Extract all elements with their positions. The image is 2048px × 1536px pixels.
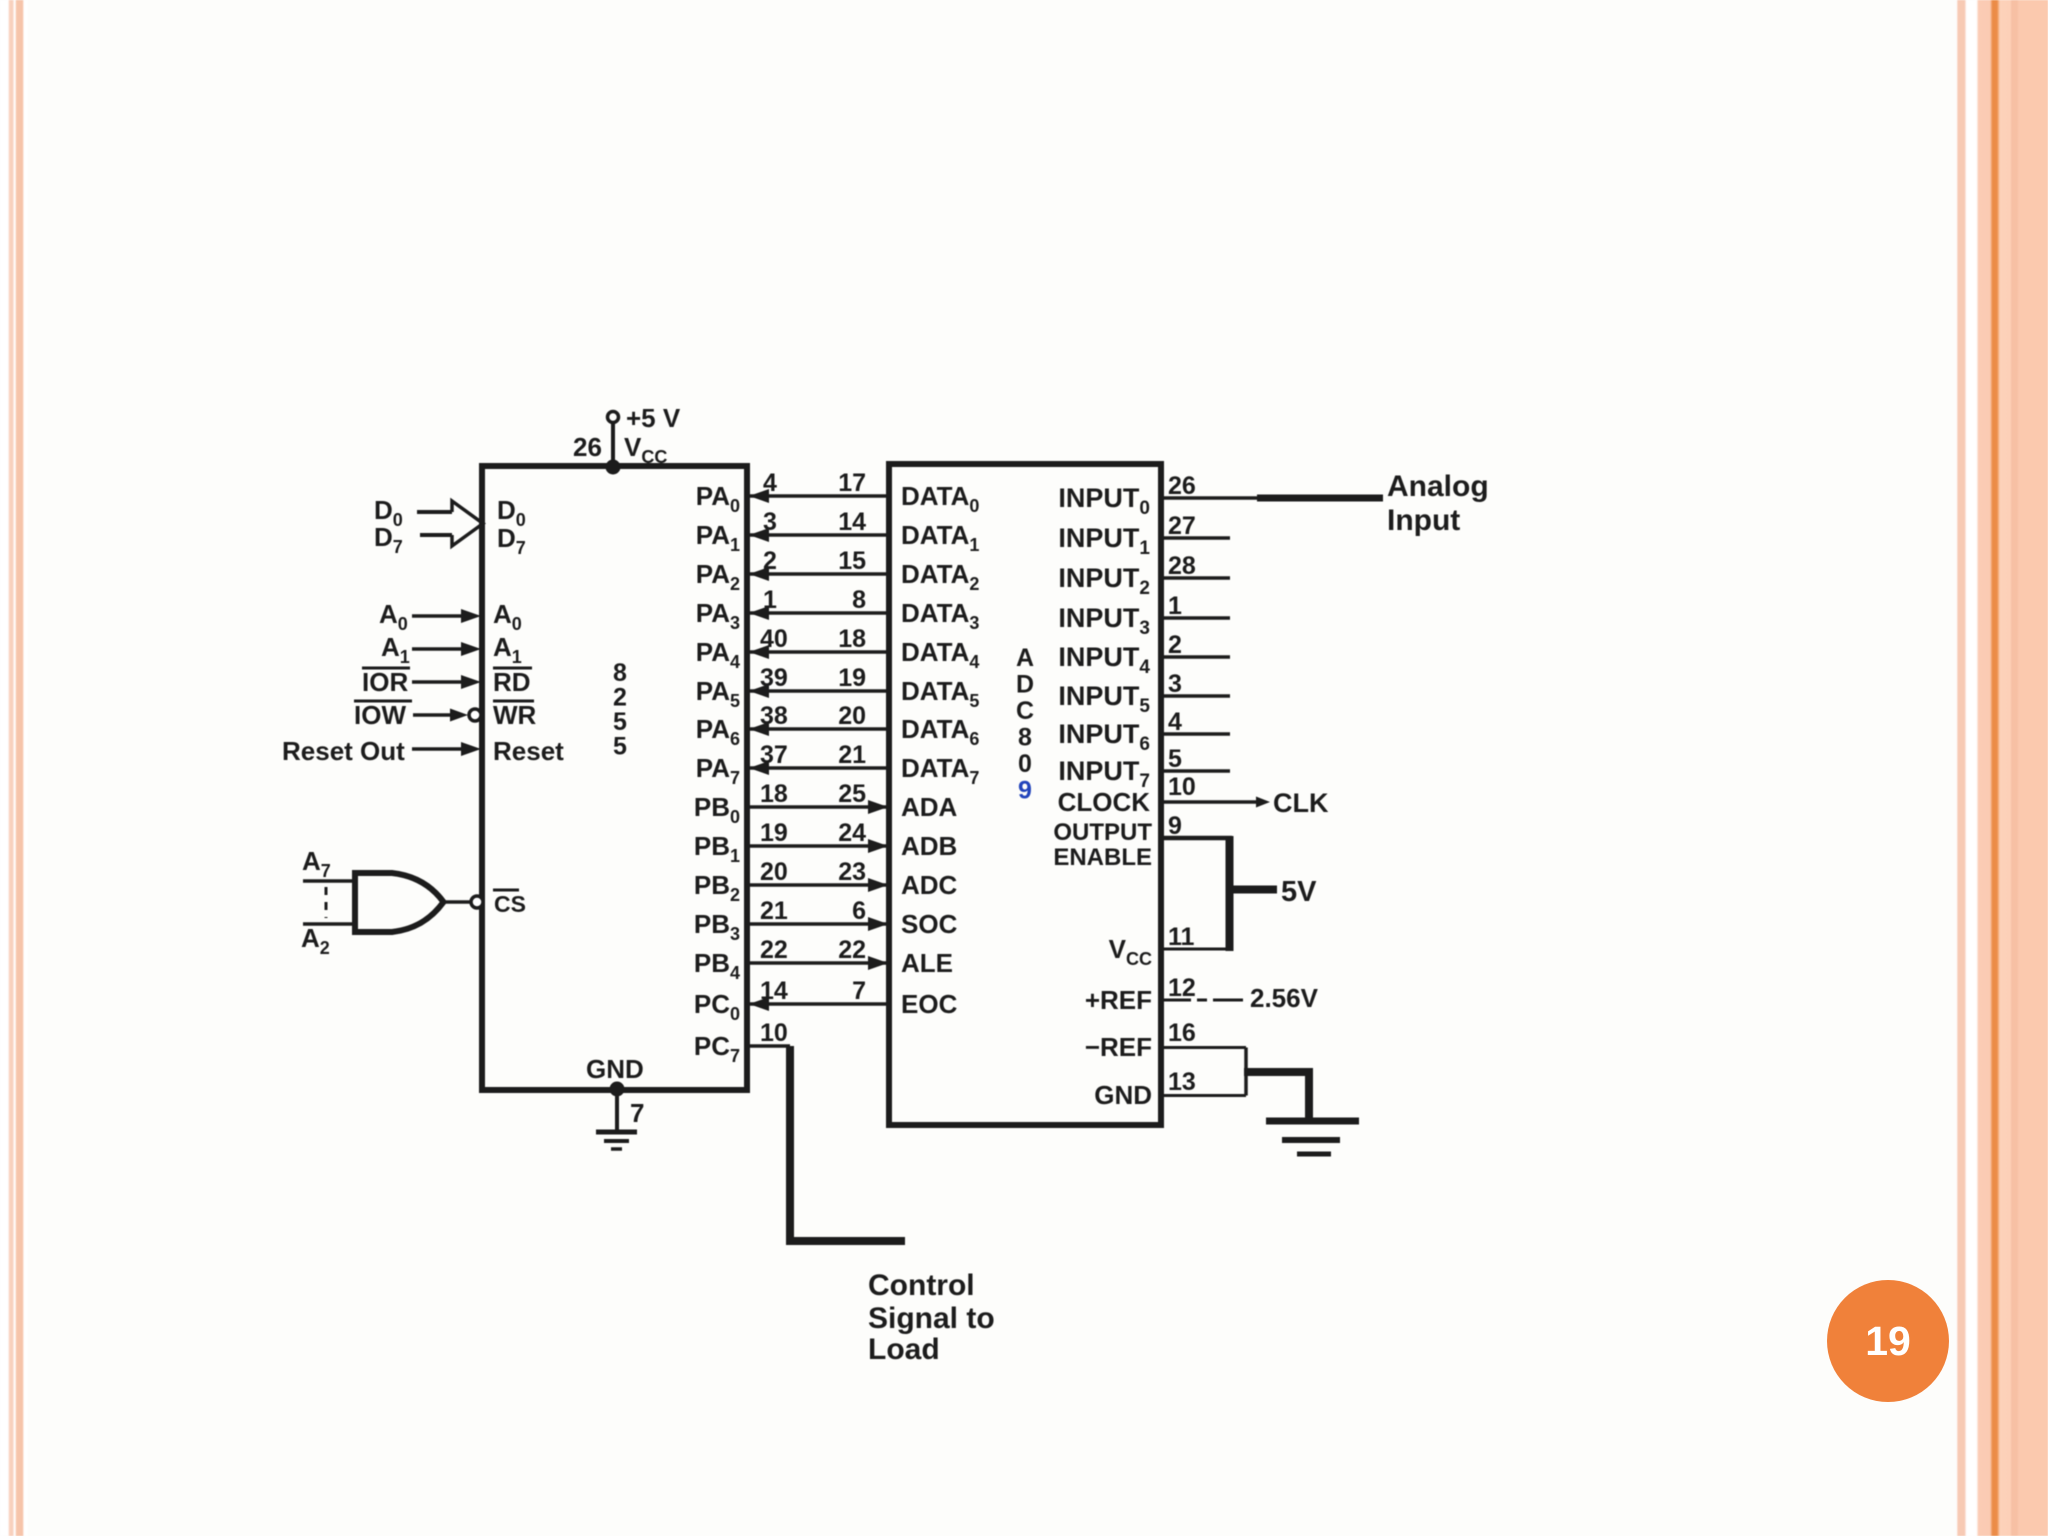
svg-text:Analog: Analog — [1387, 470, 1489, 503]
svg-text:5: 5 — [613, 733, 627, 761]
svg-text:1: 1 — [763, 586, 777, 614]
svg-text:PB2: PB2 — [694, 870, 740, 905]
svg-text:EOC: EOC — [901, 989, 958, 1019]
svg-text:Control: Control — [868, 1269, 975, 1302]
svg-text:DATA3: DATA3 — [901, 598, 979, 633]
svg-text:C: C — [1016, 697, 1034, 725]
svg-text:13: 13 — [1168, 1068, 1196, 1096]
svg-text:PB3: PB3 — [694, 909, 740, 944]
svg-text:D: D — [1016, 671, 1034, 699]
svg-text:18: 18 — [838, 625, 866, 653]
svg-text:+REF: +REF — [1085, 985, 1152, 1015]
svg-text:IOW: IOW — [354, 700, 406, 730]
svg-text:1: 1 — [1168, 592, 1182, 620]
svg-text:4: 4 — [1168, 708, 1182, 736]
svg-text:PA0: PA0 — [696, 481, 740, 516]
svg-text:19: 19 — [838, 664, 866, 692]
svg-text:RD: RD — [493, 667, 531, 697]
svg-text:3: 3 — [763, 508, 777, 536]
svg-text:10: 10 — [1168, 773, 1196, 801]
svg-text:21: 21 — [760, 897, 788, 925]
svg-text:25: 25 — [838, 780, 866, 808]
svg-text:A: A — [1016, 644, 1034, 672]
svg-text:A7: A7 — [302, 846, 331, 881]
svg-text:14: 14 — [838, 508, 866, 536]
svg-text:ENABLE: ENABLE — [1053, 844, 1152, 871]
svg-text:VCC: VCC — [624, 432, 667, 467]
svg-text:DATA0: DATA0 — [901, 481, 979, 516]
svg-text:10: 10 — [760, 1019, 788, 1047]
svg-text:A0: A0 — [493, 599, 522, 634]
svg-text:17: 17 — [838, 469, 866, 497]
svg-text:VCC: VCC — [1109, 934, 1152, 969]
svg-text:7: 7 — [630, 1098, 644, 1128]
svg-text:2: 2 — [1168, 631, 1182, 659]
svg-text:16: 16 — [1168, 1019, 1196, 1047]
svg-text:3: 3 — [1168, 670, 1182, 698]
svg-text:PA7: PA7 — [696, 753, 740, 788]
svg-text:0: 0 — [1018, 750, 1032, 778]
svg-text:12: 12 — [1168, 974, 1196, 1002]
svg-text:A1: A1 — [381, 632, 410, 667]
svg-text:INPUT2: INPUT2 — [1058, 563, 1150, 599]
svg-text:PB1: PB1 — [694, 831, 740, 866]
svg-text:Reset Out: Reset Out — [282, 736, 405, 766]
svg-text:20: 20 — [838, 702, 866, 730]
svg-text:INPUT5: INPUT5 — [1058, 681, 1150, 717]
svg-text:A0: A0 — [379, 599, 408, 634]
svg-text:19: 19 — [760, 819, 788, 847]
svg-text:DATA6: DATA6 — [901, 714, 979, 749]
svg-text:PA1: PA1 — [696, 520, 740, 555]
svg-text:CS: CS — [494, 891, 526, 917]
svg-text:DATA1: DATA1 — [901, 520, 979, 555]
svg-text:ADC: ADC — [901, 870, 958, 900]
svg-text:A2: A2 — [301, 923, 330, 958]
svg-text:40: 40 — [760, 625, 788, 653]
svg-text:4: 4 — [763, 469, 777, 497]
svg-text:27: 27 — [1168, 512, 1196, 540]
svg-text:6: 6 — [852, 897, 866, 925]
svg-text:INPUT0: INPUT0 — [1058, 483, 1150, 519]
svg-text:PA5: PA5 — [696, 676, 740, 711]
svg-text:Input: Input — [1387, 504, 1460, 537]
svg-text:A1: A1 — [493, 632, 522, 667]
svg-text:26: 26 — [573, 432, 602, 462]
svg-text:DATA5: DATA5 — [901, 676, 979, 711]
svg-text:23: 23 — [838, 858, 866, 886]
svg-text:ADB: ADB — [901, 831, 957, 861]
svg-text:ADA: ADA — [901, 792, 958, 822]
svg-text:18: 18 — [760, 780, 788, 808]
svg-text:GND: GND — [586, 1054, 644, 1084]
svg-text:24: 24 — [838, 819, 866, 847]
svg-text:DATA2: DATA2 — [901, 559, 979, 594]
svg-text:11: 11 — [1168, 923, 1195, 951]
svg-text:INPUT6: INPUT6 — [1058, 719, 1150, 755]
svg-text:PB0: PB0 — [694, 792, 740, 827]
svg-text:2.56V: 2.56V — [1250, 983, 1319, 1013]
svg-text:22: 22 — [760, 936, 788, 964]
svg-text:28: 28 — [1168, 552, 1196, 580]
svg-text:7: 7 — [852, 977, 866, 1005]
svg-text:DATA7: DATA7 — [901, 753, 979, 788]
svg-text:22: 22 — [838, 936, 866, 964]
svg-text:2: 2 — [763, 547, 777, 575]
svg-text:38: 38 — [760, 702, 788, 730]
svg-text:39: 39 — [760, 664, 788, 692]
svg-text:WR: WR — [493, 700, 537, 730]
svg-text:Signal to: Signal to — [868, 1302, 995, 1335]
svg-text:14: 14 — [760, 977, 788, 1005]
svg-text:CLOCK: CLOCK — [1058, 787, 1151, 817]
svg-text:9: 9 — [1018, 777, 1032, 805]
svg-text:Reset: Reset — [493, 736, 564, 766]
svg-text:ALE: ALE — [901, 948, 953, 978]
svg-text:PC7: PC7 — [694, 1031, 740, 1066]
svg-text:26: 26 — [1168, 472, 1196, 500]
svg-text:15: 15 — [838, 547, 866, 575]
svg-text:−REF: −REF — [1085, 1032, 1152, 1062]
svg-text:21: 21 — [838, 741, 866, 769]
svg-text:DATA4: DATA4 — [901, 637, 979, 672]
svg-text:8: 8 — [1018, 724, 1032, 752]
svg-text:8: 8 — [852, 586, 866, 614]
svg-text:20: 20 — [760, 858, 788, 886]
svg-text:PA2: PA2 — [696, 559, 740, 594]
svg-text:PA6: PA6 — [696, 714, 740, 749]
svg-text:5: 5 — [1168, 745, 1182, 773]
svg-text:PC0: PC0 — [694, 989, 740, 1024]
svg-text:INPUT4: INPUT4 — [1058, 642, 1150, 678]
svg-text:OUTPUT: OUTPUT — [1053, 819, 1152, 846]
svg-text:INPUT1: INPUT1 — [1058, 523, 1150, 559]
svg-text:GND: GND — [1094, 1080, 1152, 1110]
svg-text:INPUT3: INPUT3 — [1058, 603, 1150, 639]
svg-text:+5 V: +5 V — [626, 403, 681, 433]
svg-text:SOC: SOC — [901, 909, 958, 939]
svg-text:PA4: PA4 — [696, 637, 740, 672]
svg-text:37: 37 — [760, 741, 788, 769]
svg-text:PA3: PA3 — [696, 598, 740, 633]
svg-text:Load: Load — [868, 1333, 940, 1366]
svg-text:IOR: IOR — [362, 667, 408, 697]
svg-text:CLK: CLK — [1273, 788, 1329, 818]
svg-text:PB4: PB4 — [694, 948, 740, 983]
svg-text:5V: 5V — [1281, 876, 1317, 908]
